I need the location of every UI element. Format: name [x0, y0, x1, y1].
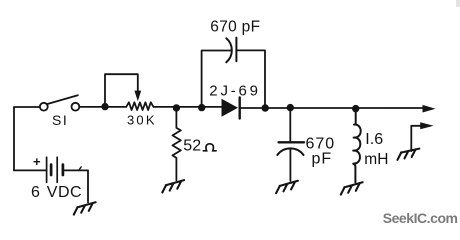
- svg-text:6: 6: [31, 184, 40, 201]
- svg-text:52: 52: [183, 138, 201, 155]
- svg-text:VDC: VDC: [47, 184, 82, 201]
- svg-text:+: +: [33, 154, 41, 169]
- svg-text:I.6: I.6: [365, 131, 383, 148]
- svg-text:mH: mH: [364, 151, 388, 168]
- svg-text:2J-69: 2J-69: [209, 82, 261, 99]
- svg-text:SI: SI: [52, 112, 68, 128]
- svg-text:SeekIC.com: SeekIC.com: [383, 210, 458, 226]
- svg-text:pF: pF: [312, 150, 333, 167]
- svg-text:670 pF: 670 pF: [210, 19, 260, 36]
- svg-text:30K: 30K: [127, 113, 157, 128]
